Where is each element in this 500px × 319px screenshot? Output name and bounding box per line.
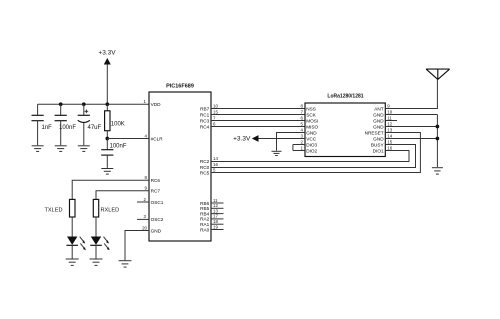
ground (U1 GND) (119, 261, 132, 267)
svg-text:4: 4 (145, 133, 148, 138)
svg-text:2: 2 (144, 197, 147, 202)
svg-text:GND: GND (151, 228, 162, 233)
svg-text:OSC2: OSC2 (151, 217, 164, 222)
svg-text:1: 1 (144, 99, 147, 104)
wire SPI SCK (RC1 to SCK) (211, 114, 305, 116)
wire DIO1 net (RC2 to DIO1) (211, 151, 409, 162)
ground (RXLED) (90, 259, 103, 265)
U1 left pin labels (151, 102, 164, 234)
svg-text:VDD: VDD (151, 102, 162, 107)
svg-text:9: 9 (387, 103, 390, 108)
svg-text:RXLED: RXLED (101, 207, 120, 213)
svg-text:RB7: RB7 (200, 106, 210, 111)
svg-text:14: 14 (213, 156, 218, 161)
svg-text:18: 18 (213, 219, 218, 224)
wire DIO2 stub (293, 150, 305, 152)
svg-text:NRESET: NRESET (365, 130, 384, 135)
svg-text:GND: GND (373, 118, 384, 123)
svg-text:11: 11 (387, 115, 392, 120)
resistor R1 100K (105, 104, 125, 138)
U1 RB4 pin stub (211, 213, 224, 215)
svg-text:RC6: RC6 (151, 178, 161, 183)
svg-text:100K: 100K (111, 122, 125, 128)
svg-text:ANT: ANT (374, 106, 384, 111)
svg-text:RC3: RC3 (200, 118, 210, 123)
U1 right pin labels (200, 106, 210, 232)
svg-text:GND: GND (373, 136, 384, 141)
wire U2 GND pin 14 (385, 138, 437, 140)
svg-text:5: 5 (301, 121, 304, 126)
svg-text:10: 10 (213, 103, 218, 108)
antenna ANT1 (426, 69, 450, 79)
svg-text:100nF: 100nF (59, 125, 76, 131)
wire MCLR to PIC pin 4 (107, 138, 149, 140)
wire U2 VCC pin 3 (258, 138, 305, 140)
svg-text:17: 17 (213, 214, 218, 219)
ground (C3) (78, 146, 90, 152)
svg-text:RA0: RA0 (200, 227, 210, 232)
node junction C3 on rail (82, 102, 86, 106)
ground (GND bus) (432, 168, 443, 174)
svg-text:7: 7 (213, 115, 216, 120)
svg-text:SCK: SCK (306, 112, 317, 117)
svg-text:13: 13 (213, 208, 218, 213)
svg-text:TXLED: TXLED (45, 207, 63, 213)
svg-text:LoRa1280/1281: LoRa1280/1281 (327, 94, 363, 100)
svg-text:RB4: RB4 (200, 211, 210, 216)
node MCLR junction (105, 137, 109, 141)
svg-text:47uF: 47uF (88, 125, 102, 131)
ground (U2 pin4) (272, 151, 282, 155)
wire GND bus vertical (436, 115, 438, 168)
svg-text:RC5: RC5 (200, 170, 210, 175)
svg-text:10: 10 (387, 109, 392, 114)
U1 RA0 pin stub (211, 229, 224, 231)
svg-text:100nF: 100nF (110, 144, 127, 150)
svg-text:4: 4 (301, 127, 304, 132)
U2 left pin numbers (301, 103, 304, 150)
U1 RB6 pin stub (211, 202, 224, 204)
wire NRESET net (RC5 to NRESET) (211, 133, 420, 173)
ground (C1) (32, 146, 44, 152)
LED D1 TX (66, 217, 86, 259)
svg-text:DIO1: DIO1 (373, 148, 384, 153)
resistor R2 TXLED (45, 199, 76, 217)
svg-text:8: 8 (145, 175, 148, 180)
svg-text:11: 11 (213, 198, 218, 203)
svg-text:RC2: RC2 (200, 159, 210, 164)
svg-text:PIC16F689: PIC16F689 (166, 84, 194, 90)
capacitor C2 100nF (55, 104, 77, 145)
svg-text:+3.3V: +3.3V (233, 136, 251, 143)
wire +3.3V lead down to VDD rail (106, 65, 108, 105)
svg-text:DIO2: DIO2 (306, 148, 317, 153)
svg-text:1nF: 1nF (42, 125, 53, 131)
svg-text:RC7: RC7 (151, 189, 161, 194)
wire VDD rail (38, 103, 149, 105)
node junction R-100K on rail (105, 102, 109, 106)
svg-text:8: 8 (301, 103, 304, 108)
svg-text:MISO: MISO (306, 124, 318, 129)
svg-text:6: 6 (301, 115, 304, 120)
wire RC6 to TXLED branch (72, 180, 149, 199)
svg-text:RB6: RB6 (200, 201, 210, 206)
svg-text:3: 3 (301, 133, 304, 138)
wire DIO3 stub (293, 144, 305, 146)
svg-text:VCC: VCC (306, 136, 317, 141)
svg-text:#CLR: #CLR (151, 136, 164, 141)
U2 left pin labels (306, 106, 318, 153)
svg-text:RA2: RA2 (200, 217, 210, 222)
svg-text:12: 12 (213, 203, 218, 208)
U1 RA2 pin stub (211, 218, 224, 220)
wire U2 GND pin 10 (385, 114, 437, 116)
wire U2 GND pin 4 to ground (277, 133, 306, 151)
IC U2 LoRa1280/1281 box (305, 94, 385, 157)
svg-text:19: 19 (213, 224, 218, 229)
node junction GND12 on bus (436, 125, 440, 129)
node junction GND14 on bus (436, 137, 440, 141)
wire RC7 to RXLED branch (96, 191, 149, 200)
svg-text:5: 5 (213, 167, 216, 172)
ground (TXLED) (66, 259, 79, 265)
svg-text:6: 6 (213, 121, 216, 126)
power +3.3V (left supply) (98, 50, 116, 65)
U1 RA1 pin stub (211, 223, 224, 225)
svg-text:13: 13 (387, 127, 392, 132)
wire SPI NSS (RB7 to NSS) (211, 108, 305, 110)
wire U2 GND pin 11 stub (385, 120, 397, 122)
U1 OSC1 pin stub (137, 201, 149, 203)
capacitor C3 47uF polarized (78, 104, 102, 145)
U2 right pin numbers (387, 103, 392, 150)
svg-text:16: 16 (387, 145, 392, 150)
ground (C2) (55, 146, 67, 152)
svg-text:14: 14 (387, 133, 392, 138)
svg-text:12: 12 (387, 121, 392, 126)
wire ANT pin 9 (385, 79, 437, 108)
U1 left pin numbers (142, 99, 147, 231)
IC U1 PIC16F689 (149, 84, 211, 242)
ground (C4) (101, 169, 113, 175)
svg-text:15: 15 (387, 139, 392, 144)
U1 RB5 pin stub (211, 207, 224, 209)
svg-text:BUSY: BUSY (371, 142, 385, 147)
U1 OSC2 pin stub (137, 218, 149, 220)
wire BUSY net (RC0 to BUSY) (211, 145, 416, 168)
svg-text:OSC1: OSC1 (151, 200, 164, 205)
svg-text:RB5: RB5 (200, 206, 210, 211)
svg-text:1: 1 (301, 145, 304, 150)
svg-text:15: 15 (213, 109, 218, 114)
power +3.3V (VCC arrow) (233, 135, 258, 143)
svg-text:MOSI: MOSI (306, 118, 318, 123)
node junction C2 on rail (59, 102, 63, 106)
svg-text:16: 16 (213, 162, 218, 167)
svg-text:20: 20 (142, 225, 147, 230)
svg-text:2: 2 (301, 139, 304, 144)
wire DIO3-DIO2 tie (292, 145, 294, 151)
resistor R3 RXLED (93, 199, 119, 217)
svg-text:3: 3 (144, 214, 147, 219)
svg-text:9: 9 (145, 186, 148, 191)
svg-text:7: 7 (301, 109, 304, 114)
LED D2 RX (90, 217, 110, 259)
svg-text:NSS: NSS (306, 106, 316, 111)
wire U1 GND pin 20 (125, 231, 149, 261)
U2 right pin labels (365, 106, 385, 153)
svg-text:GND: GND (373, 124, 384, 129)
svg-text:RC4: RC4 (200, 124, 210, 129)
svg-text:RC0: RC0 (200, 165, 210, 170)
wire SPI MOSI (RC3 to MOSI) (211, 120, 305, 122)
svg-text:GND: GND (306, 130, 317, 135)
svg-text:DIO3: DIO3 (306, 142, 317, 147)
svg-text:GND: GND (373, 112, 384, 117)
svg-text:RA1: RA1 (200, 222, 210, 227)
wire U2 GND pin 12 (385, 126, 437, 128)
wire SPI MISO (RC4 to MISO) (211, 126, 305, 128)
U1 right pin numbers (213, 103, 218, 229)
capacitor C1 1nF (32, 104, 53, 145)
capacitor C4 100nF (MCLR) (101, 139, 127, 168)
svg-text:+3.3V: +3.3V (98, 50, 116, 57)
svg-text:RC1: RC1 (200, 112, 210, 117)
